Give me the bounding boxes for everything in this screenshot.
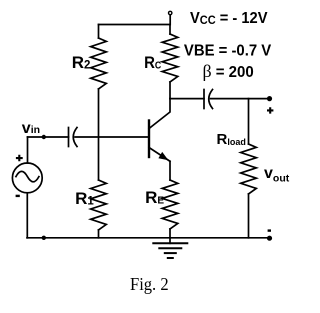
resistor Rload [241,144,257,194]
svg-text:= 200: = 200 [216,64,254,81]
capacitor C2 left plate [203,90,205,109]
label - (source) [16,195,20,197]
resistor R2 [91,38,107,89]
wire bottom rail [27,237,270,239]
wire R1 bottom [98,230,100,238]
VCC terminal [169,11,172,14]
resistor RC [162,34,178,82]
node vout + terminal dot [267,96,272,101]
wire collector to output cap [170,98,204,100]
svg-text:R2: R2 [72,53,91,72]
transistor Q1 emitter [149,148,170,162]
wire RC bottom to collector node [169,82,171,99]
transistor Q1 collector [149,99,170,129]
wire emitter down [169,161,171,180]
label - (output) [268,229,271,231]
transistor Q1 base bar [148,121,150,158]
wire R2 bottom to base node and R1 top [98,89,100,180]
capacitor C1 curved plate [73,128,77,147]
svg-text:Fig. 2: Fig. 2 [130,274,169,294]
transistor Q1 emitter arrow [158,152,168,160]
wire VCC stub [169,16,171,25]
wire output cap to + terminal [211,98,270,100]
svg-text:β: β [203,61,212,81]
svg-text:Rload: Rload [217,131,246,148]
wire R2 top [98,25,100,39]
wire Rload top [248,99,250,144]
svg-text:VCC = - 12V: VCC = - 12V [190,10,268,27]
source sine wave [16,171,39,181]
resistor R1 [91,180,107,230]
ground [169,238,171,244]
svg-text:vin: vin [22,120,40,137]
wire RC top [169,25,171,35]
svg-text:R1: R1 [75,189,94,208]
svg-text:vout: vout [264,165,290,185]
wire vin down to source [27,137,29,163]
wire RE bottom [169,229,171,238]
svg-text:VBE = -0.7 V: VBE = -0.7 V [184,43,272,60]
wire top rail [99,24,171,26]
wire Rload bottom [248,194,250,238]
capacitor C2 curved plate [209,90,213,109]
wire vin to capacitor [28,136,69,138]
node vout - terminal dot [267,236,272,241]
label + (output) [267,107,273,113]
wire capacitor to base [75,136,149,138]
node vin dot [42,135,46,139]
svg-text:RC: RC [144,53,161,72]
source sine circle [12,163,42,193]
node bottom-left dot [42,236,46,240]
capacitor C1 left plate [68,128,70,147]
resistor RE [162,180,178,229]
svg-text:RE: RE [145,188,164,207]
label + (source) [16,155,23,162]
wire source to bottom rail [26,193,28,238]
